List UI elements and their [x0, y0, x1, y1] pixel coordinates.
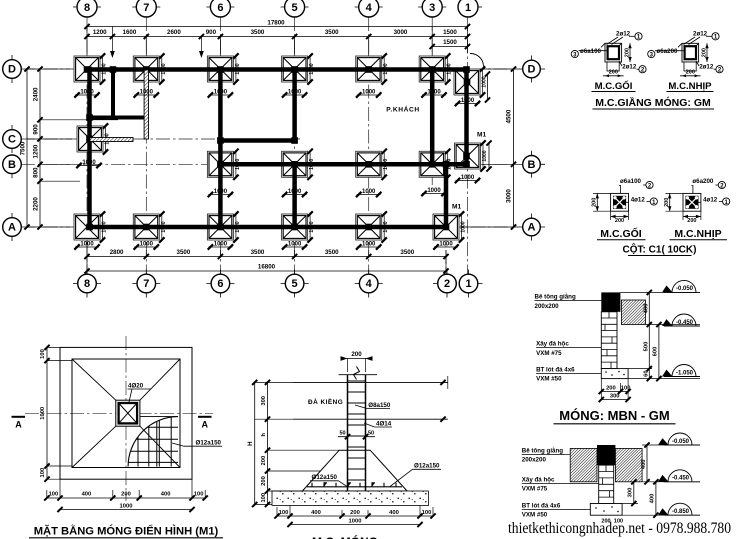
svg-text:4500: 4500	[506, 109, 513, 123]
svg-text:ø6a200: ø6a200	[657, 48, 679, 55]
footing labels 1000 row B	[208, 189, 233, 197]
M1 column stirrup square	[119, 403, 138, 423]
svg-text:1600: 1600	[123, 29, 137, 36]
footing label 1000 corner	[455, 98, 480, 106]
M1 section mark A right	[198, 417, 212, 430]
svg-text:4: 4	[366, 2, 373, 14]
col GOI leader 4o12, node 1	[622, 197, 657, 206]
svg-text:50: 50	[368, 431, 374, 437]
svg-text:4Ø14: 4Ø14	[376, 420, 392, 427]
footing labels 1000 row A	[74, 242, 99, 250]
svg-text:100: 100	[194, 492, 204, 498]
MBN lower: soil hatch band right	[615, 448, 642, 481]
section extension lines left	[255, 382, 340, 504]
grid line B horizontal	[21, 163, 508, 165]
svg-text:5: 5	[292, 2, 298, 14]
svg-text:M.C.NHỊP: M.C.NHỊP	[674, 228, 721, 240]
foundation beam grid 5 upper	[292, 67, 297, 144]
foundation beam grid B	[220, 162, 469, 167]
svg-text:200: 200	[624, 48, 630, 57]
grid bubble right B	[523, 151, 545, 178]
svg-text:8: 8	[84, 2, 90, 14]
label o12a150 left	[310, 474, 347, 487]
GM NHIP vertical dim 200	[701, 43, 708, 62]
column base 50 dims	[338, 431, 375, 440]
col GOI bottom dim 200	[611, 211, 629, 224]
M1 column outer square	[116, 400, 140, 426]
svg-text:600: 600	[652, 347, 658, 357]
svg-text:h: h	[261, 432, 267, 436]
label o8a150	[355, 402, 391, 409]
svg-text:100: 100	[621, 385, 631, 391]
GM NHIP leader 2o12 top, node 1	[684, 31, 720, 45]
wall grid 7 hatched	[144, 70, 148, 139]
svg-text:BT lót đá 4x6: BT lót đá 4x6	[536, 367, 575, 374]
svg-text:400: 400	[649, 494, 655, 504]
svg-text:P.KHÁCH: P.KHÁCH	[386, 105, 419, 114]
corner arc top right	[470, 53, 484, 66]
svg-text:300: 300	[261, 396, 267, 406]
MBN lower elevation marks	[658, 433, 700, 445]
svg-text:Xây đá hộc: Xây đá hộc	[522, 477, 555, 484]
grid bubble bottom 8	[73, 270, 101, 298]
footing M1 right upper	[455, 140, 489, 171]
M1 center lines	[25, 412, 213, 414]
MBN upper: soil hatch block	[621, 300, 645, 325]
svg-text:400: 400	[643, 304, 649, 314]
MBN upper bottom dims	[599, 379, 631, 403]
svg-text:16800: 16800	[258, 264, 276, 271]
vertical 1000 dim M1 upper	[486, 140, 491, 171]
footing bottom rebar with hooks	[307, 483, 402, 487]
grid bubble left B	[3, 155, 22, 178]
beam stub at C hatched	[90, 138, 133, 142]
footing D5	[282, 53, 316, 84]
grid line 5 vertical	[294, 17, 296, 274]
right extension lines	[462, 69, 523, 227]
section column top cap line	[339, 374, 378, 376]
svg-text:thietkethicongnhadep.net - 097: thietkethicongnhadep.net - 0978.988.780	[508, 520, 731, 537]
svg-text:400: 400	[389, 510, 399, 516]
GM NHIP bottom dim 200	[680, 70, 701, 78]
foundation beam grid 6	[218, 67, 223, 231]
vertical 1000 dim corner footing	[485, 71, 490, 102]
svg-text:50: 50	[339, 431, 345, 437]
right dimension chain 4500/3000	[506, 66, 517, 229]
svg-text:M1: M1	[477, 132, 486, 139]
footing A7	[133, 211, 167, 242]
grid bubble bottom 6	[206, 270, 234, 298]
grid line 7 vertical	[145, 17, 147, 274]
svg-text:200: 200	[261, 476, 267, 486]
M1 column X	[119, 403, 138, 423]
svg-text:400: 400	[82, 492, 92, 498]
footing labels 1000 row D	[74, 90, 99, 98]
grid bubble left C	[3, 125, 22, 153]
footing A8	[74, 211, 108, 242]
svg-text:4: 4	[366, 278, 373, 290]
svg-text:Bê tông giằng: Bê tông giằng	[535, 294, 576, 301]
svg-text:VXM #50: VXM #50	[536, 376, 562, 383]
svg-text:200: 200	[664, 198, 670, 207]
svg-text:3500: 3500	[325, 29, 339, 36]
svg-text:200: 200	[351, 351, 362, 358]
svg-text:M1: M1	[452, 204, 461, 211]
M1 label o12a150	[172, 439, 222, 446]
svg-text:1500: 1500	[443, 39, 457, 46]
grid bubble left A	[3, 213, 22, 241]
footing B6	[207, 149, 241, 180]
svg-text:7: 7	[143, 278, 149, 290]
svg-text:100: 100	[422, 510, 432, 516]
svg-text:Ø12a150: Ø12a150	[196, 439, 222, 446]
grid bubble top 7	[132, 0, 160, 17]
svg-text:-0.850: -0.850	[672, 509, 690, 515]
svg-text:VXM #75: VXM #75	[522, 486, 548, 493]
svg-text:200: 200	[261, 456, 267, 466]
svg-text:200: 200	[592, 198, 598, 207]
left overall dim H	[247, 380, 257, 507]
svg-text:2600: 2600	[167, 29, 181, 36]
footing D6	[207, 53, 241, 84]
grid line D horizontal	[21, 68, 508, 70]
GM section NHIP square	[678, 43, 699, 71]
svg-text:ø6a200: ø6a200	[692, 178, 714, 185]
svg-text:A: A	[528, 222, 536, 234]
footing M1 right lower	[433, 211, 467, 242]
foundation beam right grid 1	[464, 67, 469, 168]
M1 inner square	[72, 359, 180, 468]
svg-text:200: 200	[350, 510, 360, 516]
footing B5	[282, 149, 316, 180]
bottom chain dimension	[84, 249, 448, 259]
svg-text:BT lót đá 4x6: BT lót đá 4x6	[522, 503, 561, 510]
grid line A horizontal	[21, 226, 508, 228]
grid line 1 vertical	[467, 17, 469, 274]
MBN upper labels left	[535, 294, 602, 383]
footing A4	[356, 211, 390, 242]
footing B3	[419, 149, 453, 180]
svg-text:3500: 3500	[325, 249, 339, 256]
svg-text:60: 60	[643, 370, 649, 376]
svg-text:200x200: 200x200	[535, 303, 560, 310]
svg-text:D: D	[8, 64, 16, 76]
lean concrete pad with stipple	[272, 491, 428, 506]
svg-text:900: 900	[33, 124, 40, 135]
MBN upper: stone masonry column	[601, 312, 617, 369]
GM NHIP title	[667, 81, 714, 92]
svg-text:M.C.GIẦNG MÓNG: GM: M.C.GIẦNG MÓNG: GM	[595, 96, 711, 109]
svg-text:4ø12: 4ø12	[631, 197, 646, 204]
MBN upper elevation marks	[662, 280, 700, 292]
svg-text:A: A	[8, 222, 16, 234]
svg-text:-0.050: -0.050	[676, 286, 694, 292]
svg-text:200: 200	[609, 70, 618, 76]
svg-text:M.C.GỐI: M.C.GỐI	[600, 226, 641, 240]
GM main title	[593, 96, 715, 109]
svg-text:ø6a100: ø6a100	[580, 48, 602, 55]
foundation beam grid 5 lower	[292, 162, 297, 231]
grid line 2 vertical	[445, 160, 447, 274]
svg-text:2: 2	[444, 278, 450, 290]
svg-text:MÓNG: MBN - GM: MÓNG: MBN - GM	[559, 408, 669, 423]
svg-text:400: 400	[311, 510, 321, 516]
svg-text:6: 6	[217, 2, 223, 14]
svg-text:H: H	[247, 441, 254, 446]
svg-text:2400: 2400	[33, 87, 40, 101]
svg-text:500: 500	[643, 342, 649, 352]
GM GOI leader 2o12 top, node 1	[607, 31, 643, 45]
footing D4	[356, 53, 390, 84]
grid bubble top 3	[418, 0, 446, 17]
svg-text:A: A	[202, 420, 209, 430]
section bottom dim chain	[274, 506, 435, 519]
svg-text:3000: 3000	[394, 29, 408, 36]
foundation beam left grid 8	[87, 67, 92, 231]
MBN lower right dims	[622, 442, 700, 517]
grid bubble bottom 1	[459, 270, 482, 298]
MBN upper: lean concrete pad	[601, 369, 628, 379]
svg-text:17800: 17800	[267, 20, 285, 27]
section column top dim 200	[341, 351, 373, 372]
svg-text:2ø12: 2ø12	[699, 64, 714, 71]
svg-text:-0.450: -0.450	[676, 320, 694, 326]
bottom overall dimension 16800	[84, 264, 448, 274]
grid bubble bottom 7	[132, 270, 160, 298]
footing D3	[419, 53, 453, 84]
label o12a150 right	[390, 463, 441, 487]
svg-text:-1.050: -1.050	[676, 370, 694, 376]
svg-text:M.C.NHỊP: M.C.NHỊP	[668, 81, 712, 92]
M1 bottom overall dim 1000	[57, 504, 194, 513]
room wall horizontal	[87, 116, 146, 120]
foundation beam mid horizontal	[218, 138, 298, 143]
col NHIP leader o6a200, node 2	[691, 178, 725, 193]
footing C8	[77, 123, 111, 154]
svg-text:300: 300	[627, 488, 633, 498]
MBN lower labels left	[522, 448, 599, 519]
col GOI title	[597, 226, 646, 240]
MBN lower: stone masonry column	[599, 465, 614, 503]
beam junction nodes	[84, 66, 471, 230]
grid line 8 vertical	[86, 17, 88, 274]
svg-text:Xây đá hộc: Xây đá hộc	[536, 341, 569, 348]
col GOI left dim 200	[592, 193, 611, 211]
grid bubble left D	[3, 55, 22, 83]
footing D7	[133, 53, 167, 84]
svg-text:3: 3	[429, 2, 435, 14]
grid bubble top 4	[355, 0, 383, 17]
left segment dimension chain	[33, 66, 43, 229]
svg-text:1: 1	[465, 2, 471, 14]
M1 bottom dim chain	[44, 479, 208, 500]
svg-text:-0.050: -0.050	[672, 439, 690, 445]
M1 outer square	[60, 347, 192, 479]
GM NHIP leader 2o12 bottom, node 2	[696, 61, 723, 74]
svg-text:300: 300	[610, 393, 620, 399]
foundation beam top grid D (black band)	[85, 67, 470, 72]
grid line 4 vertical	[368, 17, 370, 274]
svg-text:900: 900	[206, 29, 217, 36]
top overall dimension 17800	[84, 20, 470, 30]
col NHIP left dim 200	[664, 193, 683, 211]
svg-text:1000: 1000	[349, 519, 362, 525]
svg-text:ø6a100: ø6a100	[620, 178, 642, 185]
grid bubble top 1	[458, 0, 482, 17]
svg-text:3500: 3500	[251, 249, 265, 256]
svg-text:1000: 1000	[120, 504, 133, 510]
svg-text:2200: 2200	[33, 197, 40, 211]
svg-text:VXM #75: VXM #75	[536, 350, 562, 357]
svg-text:200: 200	[615, 218, 624, 224]
M1 section mark A left	[12, 417, 26, 430]
MBN upper: concrete tie beam black square	[601, 292, 620, 311]
MBN lower: soil hatch band left	[570, 448, 597, 481]
room wall vertical	[111, 67, 115, 120]
top extension lines	[87, 27, 468, 59]
svg-text:2ø12: 2ø12	[616, 31, 631, 38]
svg-text:VXM #50: VXM #50	[522, 512, 548, 519]
foundation beam grid 3	[430, 67, 435, 168]
MBN lower: concrete tie beam black square	[597, 445, 615, 465]
GM GOI bottom dim 200	[603, 70, 624, 78]
grid bubble top 8	[73, 0, 101, 17]
col NHIP title	[670, 228, 728, 240]
top chain dimension line	[84, 29, 470, 39]
svg-text:3500: 3500	[177, 249, 191, 256]
svg-text:C: C	[8, 134, 16, 146]
GM GOI leader 2o12 bottom, node 2	[619, 61, 646, 74]
grid line 6 vertical	[219, 17, 221, 274]
svg-text:800: 800	[33, 167, 40, 178]
svg-text:200: 200	[606, 385, 616, 391]
svg-text:2ø12: 2ø12	[693, 31, 708, 38]
svg-text:200x200: 200x200	[522, 457, 547, 464]
svg-text:6: 6	[217, 278, 223, 290]
grade line upper	[293, 380, 448, 385]
section bottom overall 1000	[287, 519, 422, 528]
GM NHIP leader o6a200, node 3	[648, 48, 685, 59]
footing D8	[74, 53, 108, 84]
svg-text:Ø12a150: Ø12a150	[312, 474, 338, 481]
column section GOI square	[611, 193, 629, 211]
svg-text:1000: 1000	[40, 407, 46, 420]
footing A6	[207, 211, 241, 242]
grid line C horizontal	[21, 138, 300, 140]
footing B4	[356, 149, 390, 180]
svg-text:D: D	[528, 64, 536, 76]
grid bubble bottom 5	[281, 270, 309, 298]
MBN title	[554, 408, 676, 424]
bottom extension lines	[87, 240, 446, 271]
svg-text:A: A	[15, 420, 22, 430]
svg-text:3000: 3000	[506, 189, 513, 203]
svg-text:100: 100	[279, 510, 289, 516]
svg-text:CỘT: C1( 10CK): CỘT: C1( 10CK)	[623, 243, 697, 256]
small down arrows on intermediate ticks	[110, 51, 204, 58]
svg-text:4ø12: 4ø12	[703, 197, 718, 204]
footing label 1000 C8	[76, 160, 101, 168]
section column ladder	[348, 375, 366, 491]
GM GOI title	[592, 80, 636, 92]
svg-text:100: 100	[49, 492, 59, 498]
svg-text:B: B	[528, 159, 536, 171]
svg-text:200: 200	[686, 70, 695, 76]
svg-text:Ø12a150: Ø12a150	[414, 463, 440, 470]
footing A5	[282, 211, 316, 242]
svg-text:1200: 1200	[93, 29, 107, 36]
grid bubble top 6	[206, 0, 234, 17]
svg-text:-0.450: -0.450	[672, 476, 690, 482]
svg-text:100: 100	[40, 468, 46, 478]
col GOI leader o6a100, node 2	[619, 178, 653, 193]
col NHIP leader 4o12, node 1	[694, 197, 729, 206]
M1 rebar mesh quarter	[128, 405, 179, 467]
M1 label 4o20	[128, 383, 152, 403]
left dim chain of section	[261, 380, 270, 507]
svg-text:200: 200	[687, 218, 696, 224]
col NHIP bottom dim 200	[683, 211, 701, 224]
svg-text:8: 8	[84, 278, 90, 290]
svg-text:200: 200	[701, 48, 707, 57]
top right 1500 dimension	[430, 39, 471, 49]
svg-text:3500: 3500	[251, 29, 265, 36]
svg-text:4Ø20: 4Ø20	[128, 383, 144, 390]
svg-text:Bê tông giằng: Bê tông giằng	[522, 448, 563, 455]
MBN upper right dims	[620, 290, 700, 381]
column group title	[623, 243, 697, 256]
grade line lower	[293, 376, 448, 422]
label 4o14	[364, 420, 392, 427]
GM section GOI square	[601, 43, 622, 71]
GM GOI vertical dim 200	[624, 43, 631, 62]
grid bubble bottom 2	[433, 270, 456, 298]
M1 title	[29, 525, 223, 538]
left overall dimension 7500	[20, 66, 30, 229]
grid bubble bottom 4	[355, 270, 383, 298]
svg-text:B: B	[8, 159, 16, 171]
svg-text:1: 1	[465, 278, 471, 290]
svg-text:400: 400	[161, 492, 171, 498]
svg-text:MẶT BẰNG MÓNG ĐIỂN HÌNH (M1): MẶT BẰNG MÓNG ĐIỂN HÌNH (M1)	[34, 525, 219, 538]
grid bubble right D	[523, 56, 545, 83]
footing corner D1	[454, 66, 488, 97]
left extension lines	[27, 69, 118, 227]
M1 slope diagonals	[72, 359, 180, 468]
svg-text:M.C.GỐI: M.C.GỐI	[595, 80, 633, 92]
grid bubble right A	[523, 214, 545, 241]
svg-text:M.C. MÓNG: M.C. MÓNG	[312, 534, 378, 539]
svg-text:1200: 1200	[33, 144, 40, 158]
svg-text:3500: 3500	[400, 249, 414, 256]
footing trapezoid	[302, 450, 407, 491]
MBN lower: lean concrete pad	[590, 504, 622, 516]
svg-text:1500: 1500	[443, 29, 457, 36]
grid bubble top 5	[281, 0, 309, 17]
section column break symbol	[354, 367, 360, 380]
svg-text:100: 100	[40, 349, 46, 359]
svg-text:2ø12: 2ø12	[622, 64, 637, 71]
foundation beam step grid 2	[444, 162, 449, 231]
M1 left dim chain	[40, 345, 72, 482]
footing label 1000 M1 upper	[455, 175, 480, 183]
MBN lower bottom small dims	[601, 519, 623, 525]
foundation beam bottom grid A	[87, 225, 450, 230]
GM GOI leader o6a100, node 3	[571, 48, 607, 59]
svg-text:7: 7	[143, 2, 149, 14]
svg-text:Ø8a150: Ø8a150	[368, 402, 391, 409]
column section NHIP square	[683, 193, 701, 211]
